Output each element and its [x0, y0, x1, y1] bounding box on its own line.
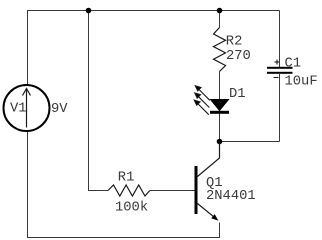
voltage source V1 arrow: [23, 89, 31, 128]
transistor Q1 collector lead: [198, 142, 220, 177]
capacitor C1 top plate: [267, 67, 293, 69]
svg-text:D1: D1: [229, 87, 246, 102]
transistor Q1 emitter lead: [198, 204, 215, 218]
wire R1 to Q1 base: [150, 190, 195, 192]
wire C1 bottom: [279, 74, 281, 142]
transistor Q1 base bar: [195, 166, 198, 214]
LED light arrow 2: [195, 93, 210, 108]
svg-text:10uF: 10uF: [285, 75, 318, 90]
capacitor C1 minus sign: [274, 77, 279, 79]
svg-text:C1: C1: [285, 57, 302, 72]
LED D1 cathode bar: [210, 111, 229, 114]
transistor Q1 emitter arrowhead: [211, 214, 218, 221]
wire C1 top: [279, 11, 281, 68]
capacitor C1 plus sign: [275, 60, 280, 65]
svg-text:270: 270: [226, 49, 251, 64]
wire top rail from V1 to C1: [28, 11, 280, 85]
node junction dot collector: [217, 139, 223, 145]
wire base branch vertical: [89, 11, 109, 191]
node junction dot top base branch: [86, 8, 92, 14]
svg-text:2N4401: 2N4401: [206, 189, 256, 204]
wire collector node to C1: [220, 141, 280, 143]
svg-text:9V: 9V: [51, 102, 68, 117]
svg-text:V1: V1: [10, 102, 27, 117]
LED D1 triangle: [211, 100, 229, 111]
svg-text:R1: R1: [118, 171, 135, 186]
wire left bottom from V1 to bottom rail: [28, 132, 220, 238]
svg-text:R2: R2: [226, 35, 243, 50]
capacitor C1 bottom plate: [267, 72, 293, 74]
LED light arrow 3: [194, 100, 209, 115]
LED light arrow 1: [195, 86, 210, 101]
voltage source V1 circle: [4, 85, 50, 131]
wire LED to collector node: [219, 113, 221, 158]
resistor R1 zigzag: [108, 185, 150, 196]
resistor R2 zigzag: [214, 28, 226, 72]
wire R2 to LED: [219, 72, 221, 100]
svg-text:100k: 100k: [115, 200, 148, 216]
node junction dot top R2 branch: [217, 8, 223, 14]
wire R2 branch top: [219, 11, 221, 28]
